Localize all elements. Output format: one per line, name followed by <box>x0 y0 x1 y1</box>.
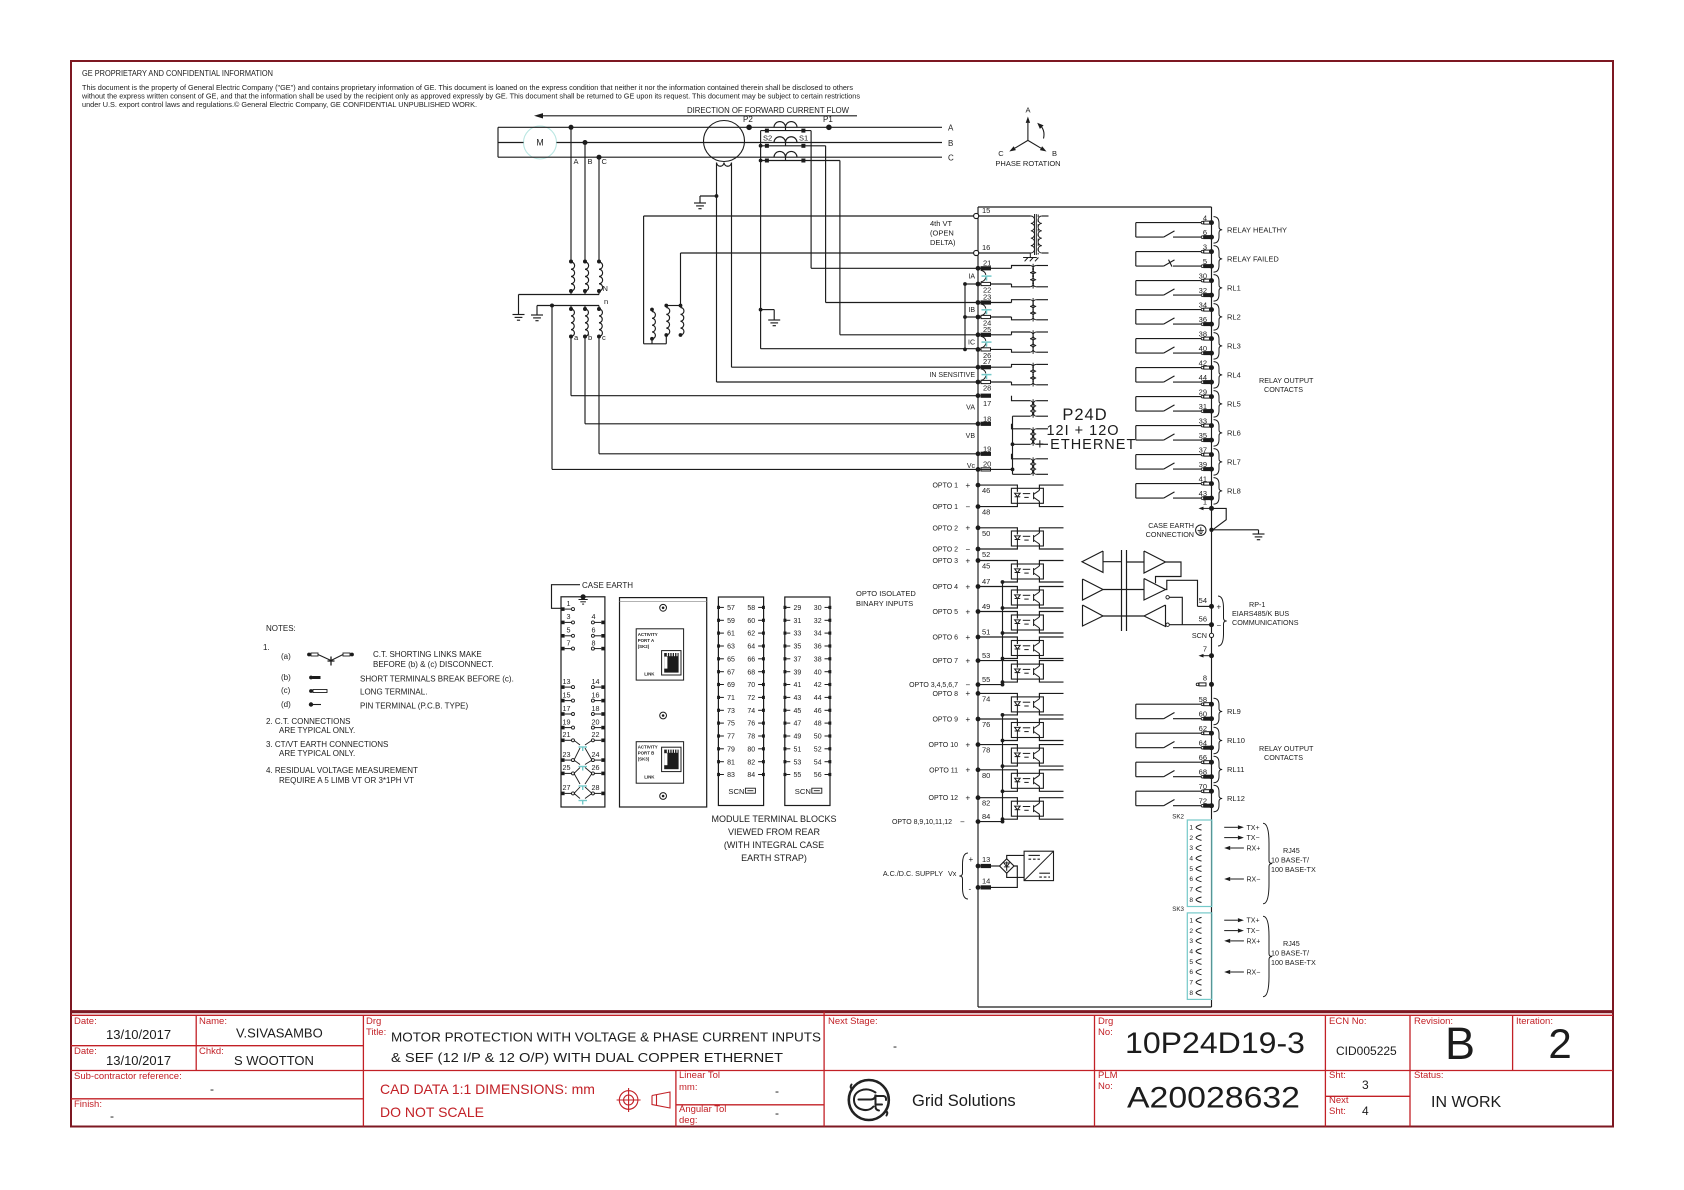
svg-text:54: 54 <box>1199 596 1207 605</box>
svg-text:DIRECTION OF FORWARD CURREN: DIRECTION OF FORWARD CURRENT FLOW <box>687 106 849 115</box>
CT shorting link IA <box>968 270 991 282</box>
wire vc to terminal 19 <box>599 337 978 454</box>
svg-text:66: 66 <box>747 656 755 663</box>
terminal 7 <box>1199 645 1215 659</box>
ethernet port SK2 <box>1172 813 1212 906</box>
svg-text:6: 6 <box>1189 969 1193 976</box>
svg-text:OPTO 1: OPTO 1 <box>932 483 958 490</box>
svg-text:3: 3 <box>1203 243 1207 252</box>
svg-text:A20028632: A20028632 <box>1127 1082 1300 1115</box>
svg-text:44: 44 <box>1199 373 1207 382</box>
wire opto 3 minus to common <box>1001 579 1018 584</box>
svg-text:5: 5 <box>567 626 571 635</box>
svg-text:13/10/2017: 13/10/2017 <box>106 1027 171 1042</box>
svg-text:81: 81 <box>727 759 735 766</box>
VT secondary winding b <box>583 306 592 343</box>
svg-text:4. RESIDUAL VOLTAGE MEASURE: 4. RESIDUAL VOLTAGE MEASUREMENT <box>266 766 418 775</box>
first-angle projection symbol <box>617 1088 670 1112</box>
svg-text:Sub-contractor reference:: Sub-contractor reference: <box>74 1071 182 1082</box>
CT shorting link IN SENSITIVE <box>929 369 991 381</box>
svg-text:Next: Next <box>1329 1095 1349 1106</box>
note symbol d pin terminal <box>309 702 321 706</box>
svg-text:RX−: RX− <box>1247 970 1261 977</box>
svg-text:RX+: RX+ <box>1247 846 1261 853</box>
optocoupler U9 <box>1011 723 1043 738</box>
wire opto 6 output stubs <box>1039 637 1063 659</box>
svg-text:27: 27 <box>983 357 991 366</box>
terminal 26 <box>976 347 1012 360</box>
wire opto 8 output stubs <box>1039 693 1063 715</box>
CT shorting link IC <box>968 336 992 348</box>
RS485 buffer left 1 <box>1082 551 1122 572</box>
svg-text:RL8: RL8 <box>1227 487 1241 496</box>
svg-text:5: 5 <box>1203 257 1207 266</box>
rear terminal 23/24 <box>561 750 605 762</box>
VT secondary winding c <box>597 306 606 343</box>
terminal 13 supply plus <box>969 855 991 868</box>
svg-text:Grid Solutions: Grid Solutions <box>912 1092 1016 1110</box>
optocoupler U10 <box>1011 748 1043 763</box>
svg-text:without the express written co: without the express written consent of G… <box>81 94 861 101</box>
svg-text:−: − <box>1217 621 1222 630</box>
svg-text:+: + <box>1217 603 1222 612</box>
svg-text:RL6: RL6 <box>1227 429 1241 438</box>
terminal 80 opto 11 plus <box>929 766 1017 780</box>
CT phase B primary <box>774 137 797 146</box>
wire opto 9 output stubs <box>1039 719 1063 741</box>
svg-text:CONTACTS: CONTACTS <box>1264 753 1303 762</box>
svg-text:6: 6 <box>1189 876 1193 883</box>
svg-text:17: 17 <box>983 399 991 408</box>
svg-text:+: + <box>966 481 971 490</box>
optocoupler U2 <box>1011 531 1043 546</box>
svg-text:RL2: RL2 <box>1227 313 1241 322</box>
RS485 isolation barrier <box>1122 550 1127 631</box>
RS485 port label RP-1 <box>1218 596 1299 646</box>
wire opto 9 minus to common <box>1001 738 1018 743</box>
wire opto 6 minus to common <box>1001 656 1018 661</box>
VT primary winding phase A <box>569 260 575 292</box>
wire opto common bus 8-12 <box>1001 715 1005 823</box>
svg-text:A: A <box>1025 106 1030 115</box>
svg-text:7: 7 <box>1189 980 1193 987</box>
svg-text:Sht:: Sht: <box>1329 1106 1346 1117</box>
node phase B tap <box>583 140 588 145</box>
svg-text:& SEF (12 I/P & 12 O/P) WITH D: & SEF (12 I/P & 12 O/P) WITH DUAL COPPER… <box>391 1050 783 1065</box>
terminal 48 opto 1 minus <box>932 502 1017 516</box>
svg-text:+: + <box>966 740 971 749</box>
wire phase C drop to VT <box>599 157 608 262</box>
wire opto 8 minus to common <box>1001 712 1018 717</box>
wire opto 3 output stubs <box>1039 561 1063 583</box>
svg-text:TX+: TX+ <box>1247 918 1260 925</box>
terminal 49 opto 5 plus <box>932 602 1017 616</box>
ground CT secondary common <box>768 320 780 326</box>
terminal 15 <box>974 206 991 219</box>
relay output contact RL9 <box>1136 695 1241 725</box>
svg-text:34: 34 <box>1199 301 1207 310</box>
svg-text:MODULE TERMINAL BLOCKS: MODULE TERMINAL BLOCKS <box>711 814 836 824</box>
svg-text:4th VT: 4th VT <box>930 219 953 228</box>
svg-text:ACTIVITY: ACTIVITY <box>638 632 658 637</box>
svg-text:S1: S1 <box>799 134 808 143</box>
svg-text:10 BASE-T/: 10 BASE-T/ <box>1271 856 1309 865</box>
svg-text:PORT B: PORT B <box>638 751 655 756</box>
wire opto 1 output stubs <box>1039 485 1063 507</box>
svg-text:Chkd:: Chkd: <box>199 1046 224 1057</box>
ethernet port A cutout <box>636 629 683 680</box>
open delta VT winding 2 <box>664 304 669 344</box>
svg-text:Next Stage:: Next Stage: <box>828 1016 878 1027</box>
svg-text:ARE TYPICAL ONLY.: ARE TYPICAL ONLY. <box>279 726 355 735</box>
rear terminal 7/8 <box>561 638 605 650</box>
svg-text:45: 45 <box>794 708 802 715</box>
relay output contacts label upper <box>1259 376 1314 394</box>
svg-text:70: 70 <box>1199 782 1207 791</box>
svg-text:23: 23 <box>563 750 571 759</box>
svg-text:51: 51 <box>982 628 990 637</box>
svg-text:22: 22 <box>592 730 600 739</box>
case earth symbol <box>1146 521 1206 539</box>
optocoupler U5 <box>1011 615 1043 630</box>
transformer IA input <box>1012 264 1049 289</box>
svg-text:25: 25 <box>983 325 991 334</box>
CT phase A primary <box>774 122 797 131</box>
svg-text:+: + <box>966 689 971 698</box>
ethernet port B cutout <box>636 742 683 784</box>
svg-text:LINK: LINK <box>644 775 655 780</box>
supply label Vx <box>883 853 968 899</box>
svg-text:RP-1: RP-1 <box>1249 600 1265 609</box>
svg-text:31: 31 <box>794 618 802 625</box>
VT primary winding phase B <box>583 260 589 292</box>
wire opto 7 output stubs <box>1039 661 1063 683</box>
svg-text:under U.S. export control laws: under U.S. export control laws and regul… <box>82 101 477 109</box>
svg-text:45: 45 <box>982 562 990 571</box>
wire opto 5 minus to common <box>1001 630 1018 635</box>
RS485 buffer left 2 <box>1083 579 1127 600</box>
svg-text:RL7: RL7 <box>1227 458 1241 467</box>
svg-text:48: 48 <box>814 721 822 728</box>
rear terminal 13/14 <box>561 677 605 689</box>
svg-text:C.T. SHORTING LINKS MAKE: C.T. SHORTING LINKS MAKE <box>373 650 482 659</box>
svg-text:OPTO 3,4,5,6,7: OPTO 3,4,5,6,7 <box>909 682 958 689</box>
svg-text:OPTO 6: OPTO 6 <box>932 635 958 642</box>
notes text <box>263 624 514 785</box>
svg-text:29: 29 <box>794 605 802 612</box>
svg-text:17: 17 <box>563 704 571 713</box>
svg-text:OPTO 5: OPTO 5 <box>932 609 958 616</box>
svg-text:RJ45: RJ45 <box>1283 939 1300 948</box>
svg-text:A: A <box>574 157 579 166</box>
svg-text:5: 5 <box>1189 866 1193 873</box>
svg-text:PHASE ROTATION: PHASE ROTATION <box>995 159 1060 168</box>
terminal block 29-56 rear view <box>784 597 832 806</box>
svg-text:41: 41 <box>1199 475 1207 484</box>
svg-text:76: 76 <box>982 720 990 729</box>
svg-text:RL1: RL1 <box>1227 284 1241 293</box>
case earth label and leader <box>552 581 634 608</box>
svg-text:LINK: LINK <box>644 672 655 677</box>
node P2 on phase A <box>743 115 753 130</box>
svg-text:B: B <box>588 157 593 166</box>
svg-text:3: 3 <box>567 612 571 621</box>
svg-text:OPTO 1: OPTO 1 <box>932 504 958 511</box>
svg-text:B: B <box>1052 149 1057 158</box>
svg-text:SHORT TERMINALS BREAK BEFORE (: SHORT TERMINALS BREAK BEFORE (c). <box>360 675 514 684</box>
core-balance CT ring <box>704 121 745 167</box>
svg-text:CAD DATA 1:1 DIMENSIONS: mm: CAD DATA 1:1 DIMENSIONS: mm <box>380 1081 595 1097</box>
ground VT secondary <box>531 315 543 321</box>
svg-text:+: + <box>966 656 971 665</box>
relay output contact RL8 <box>1136 475 1241 505</box>
svg-text:6: 6 <box>592 626 596 635</box>
terminal 84 opto 8-12 common minus <box>892 812 1003 826</box>
optocoupler U12 <box>1011 801 1043 816</box>
terminal 76 opto 9 plus <box>932 715 1017 729</box>
svg-text:No:: No: <box>1098 1081 1113 1092</box>
svg-text:n: n <box>604 297 608 306</box>
svg-text:2: 2 <box>1189 835 1193 842</box>
svg-text:83: 83 <box>727 772 735 779</box>
svg-text:OPTO 11: OPTO 11 <box>929 767 958 774</box>
relay output contact RL2 <box>1136 301 1241 331</box>
svg-text:TX−: TX− <box>1247 835 1260 842</box>
svg-text:8: 8 <box>1203 673 1207 682</box>
terminal 22 <box>976 282 1012 295</box>
svg-text:(SK3): (SK3) <box>638 757 650 762</box>
CT C secondary loop <box>759 159 840 163</box>
svg-text:74: 74 <box>982 694 990 703</box>
svg-text:20: 20 <box>592 717 600 726</box>
svg-text:M: M <box>536 138 543 148</box>
terminal 19 <box>967 444 992 470</box>
svg-text:OPTO 2: OPTO 2 <box>932 525 958 532</box>
svg-text:-: - <box>775 1106 779 1120</box>
svg-text:RL5: RL5 <box>1227 400 1241 409</box>
node phase A tap <box>569 125 574 130</box>
svg-text:+: + <box>966 633 971 642</box>
optocoupler U4 <box>1011 590 1043 605</box>
terminal block heavy duty rear view <box>561 597 605 807</box>
svg-text:63: 63 <box>727 644 735 651</box>
wire va to terminal 17 <box>571 337 978 396</box>
wire bus phase A <box>498 126 942 128</box>
svg-text:RELAY FAILED: RELAY FAILED <box>1227 255 1279 264</box>
svg-text:31: 31 <box>1199 402 1207 411</box>
svg-text:84: 84 <box>747 772 755 779</box>
wire opto 4 minus to common <box>1001 605 1018 610</box>
svg-text:VB: VB <box>966 433 976 440</box>
svg-text:2: 2 <box>1189 928 1193 935</box>
bus left end tie <box>497 127 499 157</box>
svg-text:79: 79 <box>727 746 735 753</box>
svg-text:b: b <box>588 333 592 342</box>
svg-text:A: A <box>948 124 954 133</box>
svg-text:+: + <box>969 855 974 864</box>
optocoupler U6 <box>1011 641 1043 656</box>
wire opto 10 output stubs <box>1039 745 1063 767</box>
svg-text:69: 69 <box>727 682 735 689</box>
wire phase B drop to VT <box>585 143 593 262</box>
svg-text:25: 25 <box>563 763 571 772</box>
svg-text:c: c <box>602 333 606 342</box>
node phase C tap <box>597 155 602 160</box>
wire VT input common to terminal 20 <box>978 416 1014 474</box>
rear terminal 5/6 <box>561 626 605 638</box>
rear terminal 3/4 <box>561 612 605 624</box>
svg-text:+: + <box>966 582 971 591</box>
svg-text:82: 82 <box>982 799 990 808</box>
wire open delta to terminal 16 <box>681 252 979 254</box>
svg-text:OPTO ISOLATED: OPTO ISOLATED <box>856 589 916 598</box>
rear terminal 27/28 <box>561 783 605 795</box>
CT phase C primary <box>774 151 797 160</box>
svg-text:−: − <box>966 545 971 554</box>
svg-text:38: 38 <box>814 656 822 663</box>
SK2 RJ45 label <box>1263 823 1316 904</box>
svg-text:7: 7 <box>1189 887 1193 894</box>
terminal 74 opto 8 plus <box>932 689 1017 703</box>
svg-text:56: 56 <box>814 772 822 779</box>
svg-text:(d): (d) <box>281 700 291 709</box>
svg-text:+: + <box>966 794 971 803</box>
node P1 on phase A <box>823 115 833 130</box>
note symbol a shorting link <box>307 653 354 666</box>
rear panel with ethernet ports <box>620 598 707 807</box>
ground core CT <box>694 203 706 209</box>
terminal 24 <box>976 315 1012 328</box>
svg-text:32: 32 <box>814 618 822 625</box>
svg-text:PORT A: PORT A <box>638 638 655 643</box>
svg-text:EIARS485/K BUS: EIARS485/K BUS <box>1232 609 1289 618</box>
svg-text:B: B <box>948 139 953 148</box>
svg-text:53: 53 <box>982 651 990 660</box>
svg-text:3: 3 <box>1189 845 1193 852</box>
svg-text:21: 21 <box>563 730 571 739</box>
svg-text:55: 55 <box>982 675 990 684</box>
svg-text:IB: IB <box>968 307 975 314</box>
svg-text:13/10/2017: 13/10/2017 <box>106 1053 171 1068</box>
svg-text:2. C.T. CONNECTIONS: 2. C.T. CONNECTIONS <box>266 717 350 726</box>
svg-text:13: 13 <box>982 855 990 864</box>
svg-text:62: 62 <box>1199 724 1207 733</box>
svg-text:80: 80 <box>982 771 990 780</box>
wire opto 2 output stubs <box>1039 528 1063 549</box>
svg-text:C: C <box>948 154 954 163</box>
svg-text:(c): (c) <box>281 686 291 695</box>
svg-text:CONNECTION: CONNECTION <box>1146 530 1194 539</box>
svg-text:OPTO 2: OPTO 2 <box>932 547 958 554</box>
svg-text:80: 80 <box>747 746 755 753</box>
svg-text:59: 59 <box>727 618 735 625</box>
VT secondary neutral n <box>537 297 608 315</box>
svg-text:Angular Tol: Angular Tol <box>679 1104 726 1115</box>
terminal 21 <box>976 258 1012 270</box>
svg-text:27: 27 <box>563 783 571 792</box>
relay output contact RL1 <box>1136 272 1241 302</box>
svg-text:28: 28 <box>983 384 991 393</box>
VT primary winding phase C <box>597 260 603 292</box>
relay output contact RL3 <box>1136 330 1241 360</box>
svg-text:6: 6 <box>1203 228 1207 237</box>
svg-text:S WOOTTON: S WOOTTON <box>234 1053 314 1068</box>
wire vb to terminal 18 <box>585 337 978 424</box>
svg-text:Vx: Vx <box>948 869 957 878</box>
svg-text:8: 8 <box>592 638 596 647</box>
svg-text:3. CT/VT EARTH CONNECTIONS: 3. CT/VT EARTH CONNECTIONS <box>266 740 388 749</box>
SK3 RJ45 label <box>1263 916 1316 997</box>
wire CT C S1 to terminal 25 <box>840 161 978 335</box>
svg-text:40: 40 <box>814 669 822 676</box>
svg-text:4: 4 <box>1189 949 1193 956</box>
svg-text:This document is the property: This document is the property of General… <box>82 85 854 92</box>
svg-text:10 BASE-T/: 10 BASE-T/ <box>1271 949 1309 958</box>
wire case earth to ground <box>1212 530 1259 534</box>
svg-text:P24D: P24D <box>1062 406 1107 424</box>
svg-text:29: 29 <box>1199 388 1207 397</box>
svg-text:52: 52 <box>982 550 990 559</box>
RS485 receiver right 3 <box>1127 605 1170 627</box>
relay output contact RL6 <box>1136 417 1241 447</box>
svg-text:RELAY OUTPUT: RELAY OUTPUT <box>1259 744 1314 753</box>
svg-text:deg:: deg: <box>679 1115 698 1126</box>
svg-text:14: 14 <box>592 677 600 686</box>
transformer VB input <box>1012 424 1049 446</box>
svg-text:3: 3 <box>1362 1078 1369 1092</box>
svg-text:20: 20 <box>983 459 991 468</box>
svg-text:SCN: SCN <box>728 787 744 796</box>
svg-text:TX−: TX− <box>1247 928 1260 935</box>
svg-text:+: + <box>966 715 971 724</box>
svg-text:COMMUNICATIONS: COMMUNICATIONS <box>1232 618 1299 627</box>
svg-text:24: 24 <box>592 750 600 759</box>
terminal 56 RS485 minus <box>1169 614 1221 630</box>
VT primary star point N <box>519 284 608 315</box>
svg-text:B: B <box>1445 1018 1475 1069</box>
svg-text:52: 52 <box>814 746 822 753</box>
svg-text:68: 68 <box>747 669 755 676</box>
svg-text:RL10: RL10 <box>1227 736 1245 745</box>
svg-text:56: 56 <box>1199 614 1207 623</box>
svg-text:7: 7 <box>567 638 571 647</box>
relay output contact RL11 <box>1136 753 1245 783</box>
relay output contact RL5 <box>1136 388 1241 418</box>
CT B secondary loop <box>759 144 826 148</box>
ground VT primary <box>513 315 525 321</box>
terminal 82 opto 12 plus <box>929 794 1018 808</box>
svg-text:16: 16 <box>592 690 600 699</box>
svg-text:CID005225: CID005225 <box>1336 1044 1397 1058</box>
relay output contact RELAY FAILED <box>1136 243 1280 273</box>
transformer IC input <box>1012 330 1049 354</box>
svg-text:4: 4 <box>1203 214 1207 223</box>
svg-text:VA: VA <box>966 405 975 412</box>
direction of forward current flow arrow <box>534 106 857 119</box>
svg-text:IA: IA <box>968 274 975 281</box>
rear terminal 19/20 <box>561 717 605 729</box>
terminal 45 opto 3 plus <box>932 556 1017 570</box>
wire opto 5 output stubs <box>1039 612 1063 634</box>
svg-text:33: 33 <box>1199 417 1207 426</box>
svg-text:(OPEN: (OPEN <box>930 229 954 238</box>
svg-text:+ ETHERNET: + ETHERNET <box>1036 437 1137 453</box>
svg-text:4: 4 <box>1362 1104 1369 1118</box>
svg-text:P1: P1 <box>823 115 833 124</box>
svg-text:+: + <box>966 766 971 775</box>
SK2 TX RX arrows <box>1224 825 1260 884</box>
svg-text:36: 36 <box>1199 315 1207 324</box>
